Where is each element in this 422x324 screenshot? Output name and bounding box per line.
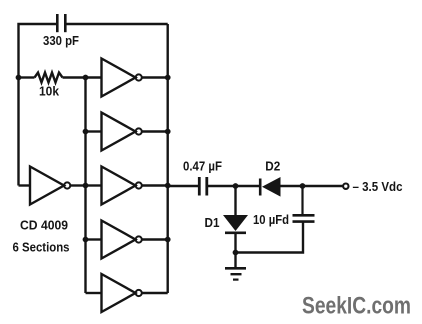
wire: ground return to filter cap <box>236 222 304 253</box>
node: output node <box>300 183 306 189</box>
resistor 10k <box>19 73 102 83</box>
node: ground junction <box>233 250 239 256</box>
svg-text:– 3.5 Vdc: – 3.5 Vdc <box>353 180 403 194</box>
node: out row4 <box>165 237 171 243</box>
svg-text:330 pF: 330 pF <box>43 33 79 48</box>
wire: top feedback left segment <box>19 24 58 186</box>
node: out row1 <box>165 75 171 81</box>
capacitor 330 pF <box>57 14 65 32</box>
ground <box>225 253 246 280</box>
svg-text:SeekIC.com: SeekIC.com <box>302 292 411 319</box>
wire: to output terminal <box>303 185 344 187</box>
op-amp inverter U1A (oscillator) <box>19 167 86 205</box>
diode D1 <box>223 186 248 253</box>
node: out row2 <box>165 129 171 135</box>
terminal: output <box>343 184 348 189</box>
inverter U1F row5 <box>86 274 168 312</box>
wire: left input bus <box>84 78 86 294</box>
capacitor 10 uFd <box>293 186 315 222</box>
node: pump node <box>233 183 239 189</box>
wire: top feedback right segment <box>65 23 167 25</box>
node: bus row2 <box>83 129 89 135</box>
node: bus row3 <box>83 183 89 189</box>
svg-text:D1: D1 <box>205 215 220 230</box>
diode D2 <box>260 177 302 197</box>
wire: bus to coupling capacitor <box>168 185 200 187</box>
wire: capacitor to pump node <box>207 185 259 187</box>
node: out row3 <box>165 183 171 189</box>
node: bus row4 <box>83 237 89 243</box>
inverter U1B row1 <box>102 59 168 97</box>
svg-text:0.47 µF: 0.47 µF <box>183 159 222 174</box>
svg-text:10 µFd: 10 µFd <box>253 212 289 227</box>
svg-text:10k: 10k <box>39 84 60 99</box>
wire: right output bus <box>166 24 168 293</box>
inverter U1C row2 <box>86 113 168 151</box>
node: far-left resistor junction <box>16 75 22 81</box>
svg-text:6 Sections: 6 Sections <box>13 240 70 255</box>
svg-text:CD 4009: CD 4009 <box>20 218 68 233</box>
node: bus row1 <box>83 75 89 81</box>
svg-text:D2: D2 <box>265 159 280 174</box>
inverter U1D row3 <box>86 167 168 205</box>
capacitor 0.47 uF <box>199 177 207 196</box>
inverter U1E row4 <box>86 221 168 259</box>
